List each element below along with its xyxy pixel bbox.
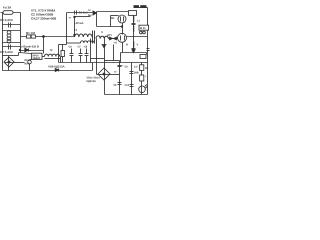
svg-text:С4,С7 220мк×50В: С4,С7 220мк×50В [31, 17, 57, 21]
svg-text:С9: С9 [125, 66, 129, 69]
svg-text:40 мА: 40 мА [76, 21, 84, 25]
svg-text:L1: L1 [137, 20, 141, 23]
svg-text:C2 0,47м: C2 0,47м [0, 50, 14, 54]
svg-text:М1: М1 [111, 17, 115, 20]
svg-text:КД213А: КД213А [87, 80, 96, 83]
svg-text:С6: С6 [69, 46, 73, 49]
svg-text:Fu 3A: Fu 3A [3, 6, 12, 10]
svg-text:50В: 50В [134, 72, 139, 75]
svg-text:ХР1: ХР1 [107, 34, 112, 37]
svg-text:тт: тт [69, 17, 72, 20]
svg-text:М 30: М 30 [140, 27, 146, 30]
svg-text:Т1: Т1 [74, 28, 78, 32]
svg-text:С10: С10 [125, 84, 130, 87]
svg-text:тс: тс [88, 9, 91, 12]
svg-text:6м: 6м [88, 14, 91, 17]
svg-text:R1 1М: R1 1М [26, 31, 35, 35]
svg-text:R: R [126, 44, 128, 47]
svg-text:С3 2н2: С3 2н2 [79, 11, 89, 15]
svg-text:C1 0,47м: C1 0,47м [0, 18, 14, 22]
svg-text:+: + [145, 75, 147, 78]
svg-text:Т2: Т2 [50, 49, 54, 52]
svg-text:С7: С7 [78, 46, 82, 49]
svg-text:R9: R9 [145, 67, 149, 70]
svg-text:ст: ст [114, 71, 117, 74]
svg-text:06ВИ1: 06ВИ1 [33, 57, 41, 60]
svg-text:+U: +U [114, 42, 117, 45]
svg-text:С8: С8 [84, 46, 88, 49]
svg-text:VD4: VD4 [24, 63, 29, 66]
svg-text:II: II [102, 31, 104, 34]
svg-text:VD9 КД213А: VD9 КД213А [48, 64, 65, 68]
svg-text:V: V [137, 44, 139, 47]
svg-text:0,47мкФ 630 В: 0,47мкФ 630 В [20, 45, 39, 48]
svg-text:2,2: 2,2 [134, 66, 138, 69]
svg-text:кд: кд [114, 84, 117, 87]
